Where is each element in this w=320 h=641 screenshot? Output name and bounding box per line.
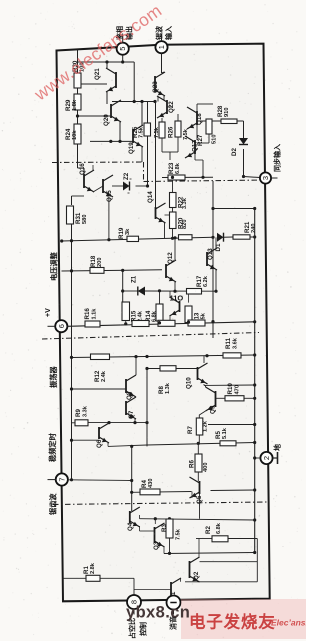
wire Q20 emitter stub	[119, 100, 121, 102]
wire x122 down	[122, 270, 124, 302]
junction x131/y446	[130, 445, 133, 448]
svg-text:3: 3	[261, 176, 270, 180]
resistor R17	[187, 289, 202, 295]
wire pin1 stem down	[161, 53, 163, 73]
wire R13-rail	[188, 321, 190, 323]
svg-text:稳频定时: 稳频定时	[48, 432, 57, 462]
pin 2 terminal GND	[260, 452, 272, 464]
wire y422 row	[88, 422, 147, 424]
wire Q4 emitter down	[139, 526, 141, 531]
junction x213/rail	[211, 320, 214, 323]
junction Q17/y177	[201, 176, 204, 179]
transistor Q13	[207, 248, 217, 270]
junction y101 right end	[153, 100, 156, 103]
wire R26-R27 join	[162, 151, 178, 153]
dash divider A vertical jog	[143, 162, 145, 182]
junction bias chain	[76, 114, 79, 117]
wire Q10 emitter down	[203, 384, 205, 385]
svg-text:Q8: Q8	[126, 391, 133, 400]
pin 1 terminal	[155, 41, 167, 53]
wire Q12 collector up	[174, 238, 176, 260]
wire y440	[72, 439, 100, 441]
wire row y443	[147, 443, 255, 446]
transistor Q17	[185, 136, 195, 158]
resistor unnamed row239	[179, 235, 193, 240]
wire R6 top	[197, 443, 199, 454]
svg-text:电子发烧友: 电子发烧友	[189, 612, 276, 632]
wire y490 to bus	[211, 489, 255, 492]
wire R6 bottom	[197, 472, 199, 481]
svg-text:锯齿波: 锯齿波	[49, 493, 58, 515]
resistor R16	[85, 321, 100, 327]
junction x254/y208	[253, 207, 256, 210]
wire Q5 emitter down	[199, 494, 201, 519]
resistor R22	[170, 193, 177, 208]
wire to pin8	[133, 578, 135, 596]
wire Q17 emitter down	[202, 160, 204, 178]
resistor R25	[144, 123, 151, 136]
svg-text:R11: R11	[225, 337, 232, 349]
svg-text:R4: R4	[141, 480, 148, 488]
transistor Q8	[126, 375, 136, 397]
wire Q6 emitter down	[107, 443, 109, 446]
svg-text:锯波: 锯波	[155, 25, 164, 40]
wire R22 top	[172, 180, 174, 193]
svg-text:+V: +V	[45, 308, 52, 317]
wire 510 bottom	[208, 134, 210, 143]
junction y518/right bus	[253, 518, 256, 521]
wire y446	[108, 445, 147, 446]
svg-text:R10: R10	[227, 383, 234, 395]
wire R25 bottom to Z2 node	[147, 136, 149, 186]
wire row y356	[72, 355, 255, 358]
pin 6 terminal +V	[55, 320, 67, 332]
wire Q8 collector up	[135, 357, 137, 375]
junction pin2/right bus	[253, 456, 256, 459]
wire Q11 collector up	[169, 291, 171, 298]
svg-text:R5: R5	[215, 431, 222, 439]
wire Q5 to R4 row	[191, 492, 193, 499]
svg-text:240: 240	[251, 224, 257, 234]
resistor R20	[170, 212, 177, 229]
wire Q22 stub	[167, 106, 172, 108]
svg-text:R28: R28	[217, 105, 224, 117]
wire Q21 emitter down	[106, 92, 108, 104]
svg-text:R12: R12	[94, 370, 101, 382]
svg-text:地: 地	[273, 444, 282, 451]
transistor Q14	[156, 203, 166, 223]
svg-text:R23: R23	[168, 162, 175, 174]
wire Q12 emitter down	[174, 282, 176, 291]
wire Q9 to R10	[216, 397, 226, 399]
transistor Q11	[170, 297, 180, 316]
wire Z1 right / y291 row	[145, 290, 216, 292]
bottom-right pink wash	[181, 599, 306, 639]
wire y385 to bus	[204, 384, 255, 386]
wire Q4-Q3 base	[140, 530, 155, 532]
wire pin8 stub down	[133, 609, 135, 615]
wire R21 right	[250, 236, 255, 238]
svg-text:R8: R8	[158, 386, 165, 394]
wire D2 bottom	[243, 149, 245, 177]
wire Q9 emitter to R7	[199, 411, 205, 418]
resistor rail B	[158, 320, 175, 326]
junction bus/row270	[70, 269, 73, 272]
transistor Q1	[171, 578, 181, 601]
svg-text:Q18: Q18	[196, 113, 203, 125]
wire Q16 collector stub	[83, 168, 85, 174]
svg-text:振荡器: 振荡器	[49, 366, 58, 388]
transistor Q20	[111, 100, 121, 122]
resistor R1	[86, 575, 100, 581]
svg-text:200: 200	[97, 258, 103, 268]
junction y490/right bus	[253, 488, 256, 491]
wire R17 to R13	[188, 294, 190, 303]
wire y177 row	[162, 176, 213, 178]
svg-text:1.2k: 1.2k	[203, 420, 209, 432]
wire x108 vertical	[108, 196, 110, 240]
resistor R18	[90, 268, 104, 274]
svg-text:2.4k: 2.4k	[101, 370, 107, 382]
dash divider C horizontal	[42, 333, 259, 340]
junction y141	[109, 140, 112, 143]
wire y208 cross	[213, 208, 255, 210]
wire to R14 top	[159, 291, 161, 304]
junction Q10/row356	[205, 354, 208, 357]
wire vertical x134	[133, 62, 135, 102]
spacer	[197, 356, 199, 367]
wire Q18 emitter to Q17	[196, 125, 198, 140]
dash divider A horizontal	[52, 161, 144, 164]
wire Q13 emitter down	[215, 270, 217, 291]
resistor R11	[223, 353, 241, 358]
junction R22/y177	[171, 176, 174, 179]
svg-text:Q17: Q17	[192, 140, 199, 152]
junction Q21/y62	[105, 60, 108, 63]
resistor R15	[122, 302, 130, 321]
wire right inner loop vertical	[256, 539, 258, 582]
wire bus x254 long	[254, 209, 256, 555]
wire y561 row	[200, 561, 258, 563]
svg-text:Q14: Q14	[147, 191, 154, 203]
svg-text:7.5k: 7.5k	[139, 126, 145, 138]
wire R1 row	[63, 577, 135, 579]
svg-text:Elec’ans.com: Elec’ans.com	[271, 618, 306, 628]
wire bus x71 long	[71, 224, 73, 480]
svg-text:2: 2	[262, 456, 271, 460]
dash divider B horizontal	[144, 180, 266, 182]
resistor R21	[233, 235, 250, 239]
wire Q9 collector stub	[205, 385, 207, 387]
resistor R28	[221, 119, 237, 124]
pin 3 terminal	[260, 172, 271, 183]
svg-text:7.5k: 7.5k	[176, 528, 182, 540]
wire pin6 stub left	[48, 325, 56, 327]
wire Z2 right	[136, 185, 148, 187]
wire row y368	[147, 368, 198, 370]
wire y389 base row	[72, 388, 127, 390]
svg-text:910: 910	[224, 108, 230, 118]
junction Q12/row239	[173, 236, 176, 239]
wire to pin3	[244, 177, 260, 178]
wire D2 top	[243, 121, 245, 138]
wire Q16-Q15 link	[93, 186, 103, 192]
resistor R8	[160, 366, 176, 371]
wire R24 down	[77, 144, 79, 168]
transistor Q6	[99, 423, 109, 443]
svg-text:7: 7	[57, 477, 66, 481]
wire y141 to Q19	[90, 140, 133, 142]
wire Q20 base tap	[78, 115, 112, 117]
wire pin7 stub left	[48, 479, 56, 481]
junction x147/row356	[145, 355, 148, 358]
svg-text:R9: R9	[75, 409, 82, 417]
junction Q20 collector	[118, 140, 121, 143]
wire Q18 collector	[196, 104, 198, 111]
svg-text:580: 580	[82, 215, 88, 225]
svg-text:Q12: Q12	[167, 252, 174, 264]
wire R2 left	[196, 538, 212, 540]
junction Q13/y291	[214, 290, 217, 293]
resistor R9	[75, 420, 88, 426]
junction x134/y101	[133, 100, 136, 103]
resistor R12	[91, 354, 110, 360]
wire Q7 emitter down	[134, 419, 136, 423]
svg-text:820: 820	[182, 220, 188, 230]
wire Q20 collector down	[119, 122, 121, 141]
resistor R19	[127, 236, 139, 241]
wire Q8-Q7 link	[134, 397, 136, 398]
junction bus/row356	[70, 356, 73, 359]
wire Q14 collector long	[155, 102, 157, 208]
svg-text:R7: R7	[187, 426, 194, 434]
wire node A horizontal y62	[78, 61, 135, 63]
wire R27 top stub	[177, 114, 179, 121]
junction border/row239	[60, 239, 63, 242]
junction rail/right bus	[253, 320, 256, 323]
svg-text:400: 400	[203, 463, 209, 473]
junction x147/row368	[145, 367, 148, 370]
svg-text:3.6k: 3.6k	[233, 337, 239, 349]
resistor R29	[74, 94, 81, 110]
junction x122/row270	[121, 269, 124, 272]
wire row y239	[62, 237, 214, 241]
junction R21/right bus	[253, 235, 256, 238]
wire R29-R24	[77, 110, 79, 124]
junction R3/y553	[168, 552, 171, 555]
transistor Q4	[130, 507, 140, 527]
wire Q6 collector	[108, 422, 110, 424]
svg-text:R1: R1	[83, 566, 90, 574]
zener Z2	[123, 182, 130, 191]
wire Q17 emitter jog	[194, 154, 196, 160]
junction Z2/R25col	[146, 184, 149, 187]
pin 7 terminal	[56, 473, 68, 485]
diode D2	[239, 138, 248, 145]
svg-text:R24: R24	[65, 128, 72, 140]
resistor R31	[67, 206, 74, 224]
wire Q11 emitter to rail	[169, 316, 171, 323]
svg-text:430: 430	[148, 479, 154, 489]
wire Q3 emitter down	[163, 547, 165, 554]
svg-text:1.8k: 1.8k	[72, 99, 78, 111]
wire R27 down	[177, 137, 179, 152]
wire pin3 stub right	[271, 177, 277, 179]
resistor R5	[220, 441, 236, 446]
wire R25 top	[147, 102, 149, 124]
wire Q14 emitter down	[164, 223, 166, 239]
wire pin1 to Q23 collector	[162, 72, 165, 73]
junction y553/right bus end	[253, 551, 256, 554]
svg-text:R16: R16	[84, 308, 91, 320]
resistor 510	[206, 119, 212, 134]
wire Q4 collector	[139, 515, 141, 519]
junction Q6/y422	[107, 421, 110, 424]
junction pin7/x131	[130, 479, 133, 482]
svg-text:Q7: Q7	[128, 410, 135, 419]
wire Q1 base row	[134, 589, 171, 591]
svg-text:5.1k: 5.1k	[222, 427, 228, 439]
wire Q13 collector up	[215, 237, 217, 248]
svg-text:R19: R19	[118, 227, 125, 239]
wire Q23 emitter down	[163, 96, 165, 100]
transistor Q10	[198, 363, 208, 384]
junction Q3/y518	[154, 517, 157, 520]
wire R9 left	[72, 422, 76, 424]
junction Q8 branch	[134, 355, 137, 358]
svg-text:R2: R2	[205, 526, 212, 534]
transistor Q7	[126, 397, 136, 419]
resistor rail C	[188, 320, 205, 326]
wire pin1 stub up	[161, 34, 163, 42]
svg-text:R6: R6	[189, 460, 196, 468]
wire Q21 base	[81, 83, 107, 85]
wire R26 top stub	[161, 118, 163, 122]
junction R7/row443	[197, 442, 200, 445]
junction x108/row239	[107, 238, 110, 241]
svg-text:Q4: Q4	[127, 522, 134, 531]
transistor Q3	[155, 523, 165, 547]
resistor R13	[185, 306, 192, 323]
junction x213/y208	[211, 207, 214, 210]
wire rail y101 top mid	[112, 101, 155, 103]
pin minus terminal	[167, 596, 181, 610]
wire R4 row	[132, 491, 192, 494]
wire y581 row	[185, 581, 257, 583]
svg-text:1.3k: 1.3k	[165, 382, 171, 394]
junction bus/y389	[70, 387, 73, 390]
wire Q16 emitter to bus	[72, 195, 85, 197]
resistor R30	[74, 73, 81, 88]
junction R15/rail	[124, 322, 127, 325]
ground symbol at pin2	[272, 457, 277, 459]
wire Q19 collector up	[141, 102, 143, 126]
svg-text:6.2k: 6.2k	[203, 275, 209, 287]
svg-text:6.8k: 6.8k	[175, 162, 181, 174]
svg-text:6: 6	[57, 324, 66, 328]
svg-text:3k: 3k	[125, 228, 131, 235]
svg-text:R29: R29	[65, 99, 72, 111]
resistor R2	[212, 536, 228, 542]
transistor Q9	[206, 387, 216, 411]
wire pin-minus stub down	[173, 609, 175, 615]
wire bus x213	[212, 181, 214, 338]
wire R22-R20	[172, 208, 174, 213]
resistor rail A	[132, 321, 149, 327]
wire Q16 stub	[92, 165, 94, 170]
wire Q19 emitter down	[141, 147, 143, 162]
resistor R6	[195, 454, 202, 472]
wire row y270	[62, 270, 163, 271]
svg-text:同步输入: 同步输入	[273, 144, 282, 172]
svg-text:Q16: Q16	[79, 163, 86, 175]
svg-text:Q15: Q15	[106, 190, 113, 202]
wire +V rail	[67, 322, 255, 327]
junction row356/right bus	[253, 353, 256, 356]
svg-text:控制: 控制	[139, 622, 148, 636]
junction R20/row	[171, 237, 174, 240]
resistor R24	[74, 124, 81, 144]
resistor R3	[166, 519, 173, 538]
svg-text:ybx8.cn: ybx8.cn	[126, 604, 190, 622]
transistor Q18	[187, 107, 197, 129]
svg-text:6.8k: 6.8k	[152, 310, 158, 322]
svg-text:Q21: Q21	[94, 68, 101, 80]
wire R10 right	[244, 397, 255, 399]
wire Q22 collector stub	[157, 96, 159, 102]
svg-text:输入: 输入	[164, 26, 173, 40]
wire Q15 to Z2	[112, 185, 123, 187]
junction pin5/y62	[121, 60, 124, 63]
svg-text:Q23: Q23	[152, 81, 159, 93]
pin 5 terminal	[117, 43, 129, 55]
junction Z1 tap	[121, 289, 124, 292]
junction Q12/y291	[173, 290, 176, 293]
resistor R26	[159, 122, 165, 138]
transistor Q15	[103, 175, 113, 197]
wire y553 row	[164, 553, 255, 554]
wire R26 down	[161, 138, 163, 152]
wire R15-rail	[125, 321, 127, 324]
svg-text:R3: R3	[161, 524, 168, 532]
wire R3 bottom	[169, 538, 171, 554]
wire R30-R29	[77, 88, 79, 94]
svg-text:Q10: Q10	[186, 377, 193, 389]
svg-text:1: 1	[157, 45, 166, 49]
junction row443/right bus	[253, 441, 256, 444]
resistor R7	[196, 418, 203, 435]
transistor Q21	[106, 68, 116, 92]
wire y518 row	[140, 519, 255, 520]
junction R14 tap	[158, 289, 161, 292]
wire Q14 base-R22R20 node	[165, 214, 173, 216]
svg-text:3.3k: 3.3k	[182, 197, 188, 209]
junction bus/pin7 row	[70, 478, 73, 481]
diode D1	[217, 233, 224, 242]
svg-text:R26: R26	[168, 126, 175, 138]
wire Q21 collector up	[106, 62, 108, 68]
wire pin5 stub up	[122, 36, 124, 43]
node spacer	[90, 354, 92, 357]
junction R3/y518	[168, 517, 171, 520]
junction x213/row239	[211, 236, 214, 239]
svg-text:Q3: Q3	[153, 541, 160, 550]
junction y424/right bus	[253, 423, 256, 426]
svg-text:R21: R21	[244, 221, 251, 233]
wire pin7 row	[68, 479, 132, 482]
wire bus x77 top	[77, 50, 79, 73]
wire y121 top right	[196, 120, 244, 122]
